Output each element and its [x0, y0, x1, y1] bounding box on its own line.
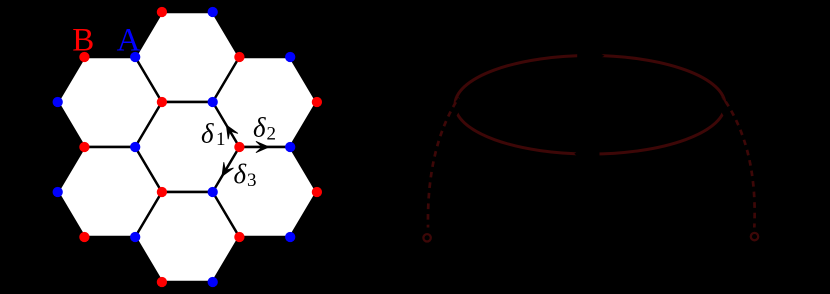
svg-text:1: 1 — [216, 129, 226, 150]
svg-text:B: B — [72, 23, 94, 59]
svg-text:δ: δ — [234, 159, 247, 189]
svg-text:A: A — [117, 23, 141, 59]
svg-text:3: 3 — [247, 170, 257, 191]
svg-text:δ: δ — [201, 119, 214, 149]
svg-text:2: 2 — [267, 124, 277, 145]
svg-text:δ: δ — [253, 113, 266, 143]
